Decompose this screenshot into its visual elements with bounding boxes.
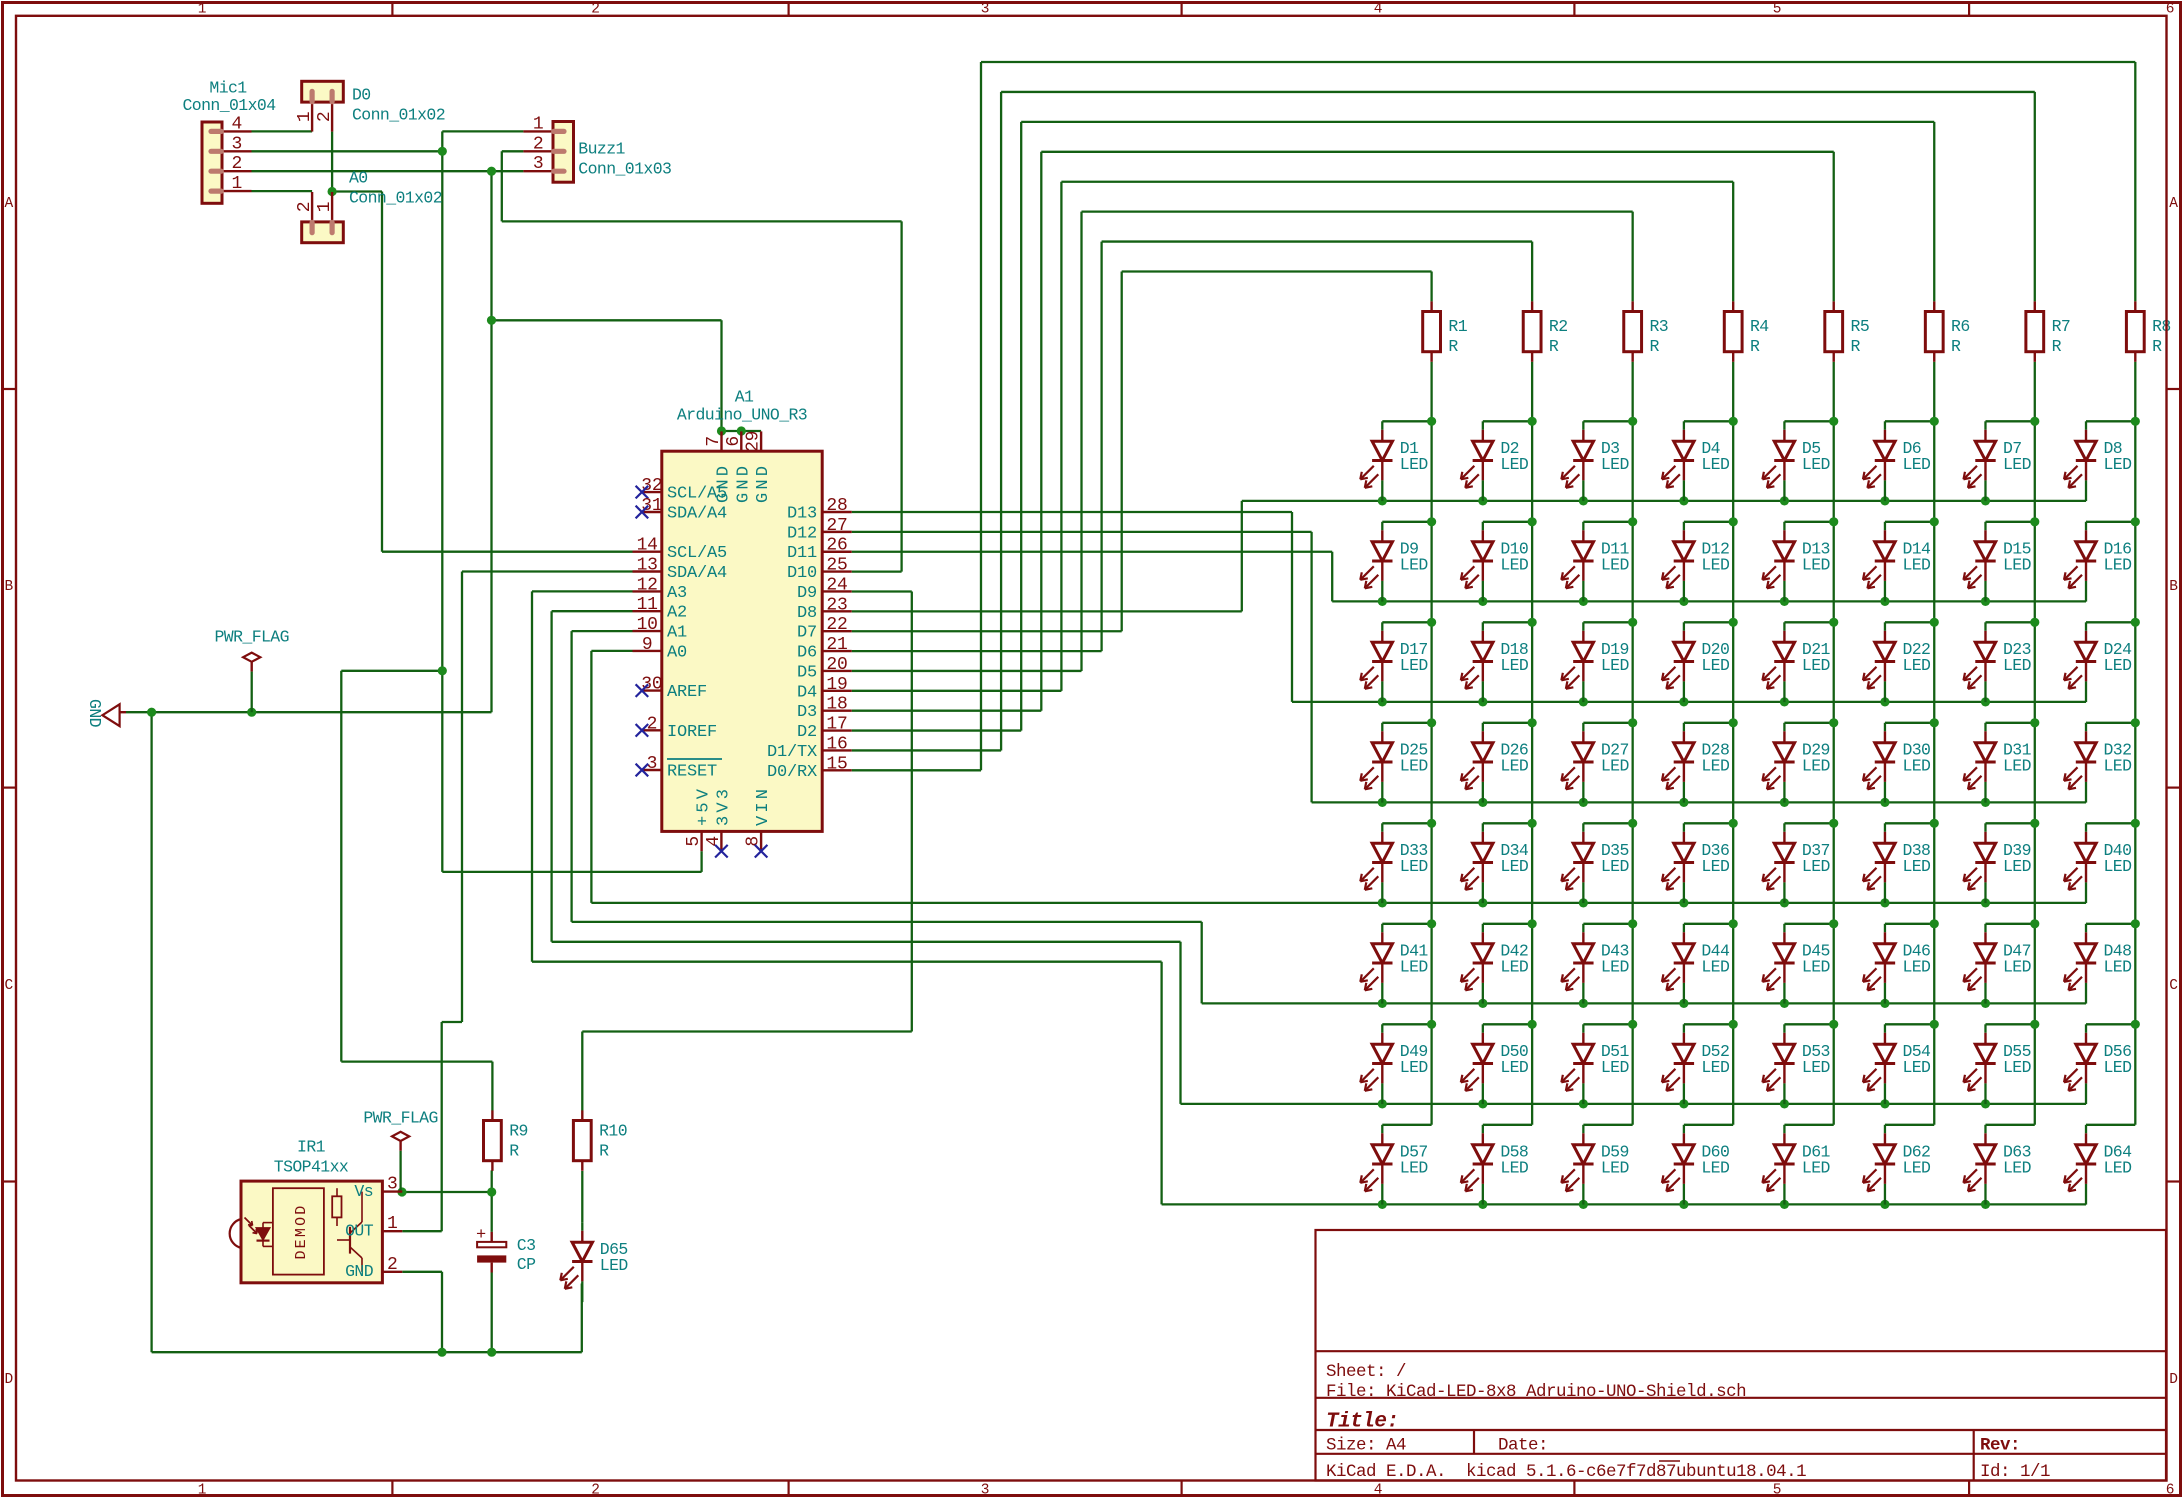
junction row 6 LED D42 cathode [1478,999,1487,1008]
LED D36 [1683,823,1685,832]
svg-text:22: 22 [826,615,847,635]
svg-text:R: R [509,1142,519,1161]
svg-text:KiCad E.D.A. kicad 5.1.6-c6e7: KiCad E.D.A. kicad 5.1.6-c6e7f7d87ubuntu… [1326,1462,1806,1482]
wire +5V net Mic1 pin 3 to Buzz1 pin 1 and Arduino +5V [252,150,443,152]
svg-text:GND: GND [345,1262,374,1281]
wire Arduino pin 27 D12 to LED row 4 [852,531,1312,533]
junction row 3 LED D19 cathode [1579,697,1588,706]
wire column 8 tap to LED row 1 [2086,420,2135,422]
wire column 4 tap to LED row 3 [1684,621,1733,623]
LED D38 [1884,823,1886,832]
svg-text:Id: 1/1: Id: 1/1 [1980,1462,2050,1482]
svg-text:A0: A0 [349,169,368,188]
LED D19 [1582,622,1584,631]
resistor R4 [1732,301,1734,311]
wire Arduino pin 12 A3 to LED row 8 [532,590,633,592]
resistor R6 [1933,301,1935,311]
svg-text:LED: LED [1601,555,1630,574]
junction column 2 row 7 [1528,1020,1537,1029]
junction column 7 row 4 [2030,718,2039,727]
wire column 5 tap to LED row 3 [1784,621,1833,623]
svg-text:LED: LED [1902,857,1931,876]
junction Arduino GND pin7 [717,426,726,435]
svg-text:D11: D11 [787,544,817,563]
svg-text:LED: LED [1400,857,1429,876]
junction column 1 row 3 [1427,618,1436,627]
LED D64 [2085,1125,2087,1134]
svg-text:14: 14 [637,536,658,556]
svg-text:LED: LED [1902,1058,1931,1077]
wire resistor R6 column vertical [1933,362,1935,1125]
svg-text:LED: LED [1400,957,1429,976]
wire column 4 tap to LED row 5 [1684,822,1733,824]
wire column 1 tap to LED row 7 [1382,1023,1431,1025]
svg-text:R: R [599,1142,609,1161]
LED D55 [1984,1024,1986,1033]
svg-text:C: C [5,978,14,994]
wire Arduino pin 28 D13 to LED row 3 [852,511,1292,513]
junction GND to Arduino GND pins [487,316,496,325]
junction Arduino GND pin6 [737,426,746,435]
IR1 internal DEMOD block [273,1188,324,1274]
svg-text:23: 23 [826,595,847,615]
LED D35 [1582,823,1584,832]
svg-text:1: 1 [315,202,335,213]
LED D23 [1984,622,1986,631]
junction row 2 LED D9 cathode [1378,597,1387,606]
wire column 4 tap to LED row 6 [1684,923,1733,925]
svg-text:4: 4 [1374,1483,1383,1498]
title block frame [1316,1230,2167,1481]
svg-text:LED: LED [1400,1058,1429,1077]
wire Arduino pin 9 A0 to LED row 5 [591,650,632,652]
junction column 7 row 1 [2030,417,2039,426]
svg-text:Conn_01x02: Conn_01x02 [352,106,445,125]
wire Arduino pin 16 D1 to resistor R7 column [852,749,1001,751]
junction row 2 LED D10 cathode [1478,597,1487,606]
junction row 8 LED D58 cathode [1478,1200,1487,1209]
svg-text:LED: LED [1802,857,1831,876]
svg-text:D0: D0 [352,86,371,105]
junction row 4 LED D27 cathode [1579,798,1588,807]
svg-text:R: R [1549,337,1559,356]
wire column 8 tap to LED row 3 [2086,621,2135,623]
LED D17 [1381,622,1383,631]
svg-text:4: 4 [1374,2,1383,18]
svg-text:A2: A2 [667,604,687,623]
resistor R9 [491,1110,493,1120]
LED D50 [1482,1024,1484,1033]
junction column 7 row 3 [2030,618,2039,627]
wire R10 bottom to D65 anode [581,1171,583,1222]
junction column 8 row 4 [2131,718,2140,727]
svg-text:LED: LED [1802,1058,1831,1077]
LED D6 [1884,421,1886,430]
svg-text:D12: D12 [787,524,817,543]
wire column 2 tap to LED row 4 [1483,722,1532,724]
svg-text:A0: A0 [667,643,687,662]
junction row 7 LED D49 cathode [1378,1099,1387,1108]
svg-text:R5: R5 [1851,317,1870,336]
LED D2 [1482,421,1484,430]
junction column 1 row 4 [1427,718,1436,727]
junction row 3 LED D20 cathode [1679,697,1688,706]
LED D59 [1582,1125,1584,1134]
svg-text:SDA/A4: SDA/A4 [667,505,727,524]
junction column 6 row 3 [1930,618,1939,627]
wire column 7 tap to LED row 2 [1985,521,2034,523]
svg-text:LED: LED [1701,1158,1730,1177]
junction row 5 LED D33 cathode [1378,898,1387,907]
svg-text:Mic1: Mic1 [209,79,247,98]
LED D5 [1783,421,1785,430]
junction column 8 row 2 [2131,517,2140,526]
Arduino A1 left pins [642,491,662,493]
LED D48 [2085,924,2087,933]
Arduino A1 bottom power pins 5 4 8 [700,831,702,851]
svg-text:LED: LED [1400,756,1429,775]
wire GND branch to Arduino GND pins [492,319,722,321]
junction column 7 row 2 [2030,517,2039,526]
svg-text:B: B [5,579,14,595]
svg-text:R9: R9 [509,1122,528,1141]
svg-text:1: 1 [198,1483,207,1498]
LED D28 [1683,723,1685,732]
wire Arduino pin 11 A2 to LED row 7 [552,610,633,612]
wire Arduino pin 22 D7 to resistor R1 column [852,630,1122,632]
wire Arduino pin 23 D8 to LED row 1 [852,610,1242,612]
junction column 2 row 1 [1528,417,1537,426]
junction column 6 row 7 [1930,1020,1939,1029]
junction row 3 LED D18 cathode [1478,697,1487,706]
wire GND net Mic1 pin 2 to Buzz1 pin 3 [252,170,524,172]
IR1 internal resistor and transistor [336,1188,338,1196]
svg-text:GND: GND [85,699,104,728]
svg-text:LED: LED [1500,957,1529,976]
junction column 5 row 2 [1829,517,1838,526]
junction column 2 row 5 [1528,819,1537,828]
svg-text:Vs: Vs [354,1182,373,1201]
junction row 7 LED D50 cathode [1478,1099,1487,1108]
svg-text:Size: A4: Size: A4 [1326,1436,1406,1456]
junction row 1 LED D5 cathode [1780,496,1789,505]
junction column 1 row 2 [1427,517,1436,526]
junction column 4 row 1 [1729,417,1738,426]
svg-text:LED: LED [2003,857,2032,876]
svg-text:LED: LED [1500,1058,1529,1077]
svg-text:LED: LED [2104,957,2133,976]
svg-text:AREF: AREF [667,683,707,702]
svg-text:LED: LED [2003,555,2032,574]
junction row 6 LED D45 cathode [1780,999,1789,1008]
wire C3 bottom to GND rail [491,1273,493,1353]
LED D27 [1582,723,1584,732]
svg-text:A3: A3 [667,584,687,603]
svg-text:File: KiCad-LED-8x8_Adruino-UN: File: KiCad-LED-8x8_Adruino-UNO-Shield.s… [1326,1382,1746,1402]
wire column 3 tap to LED row 7 [1583,1023,1632,1025]
LED D34 [1482,823,1484,832]
LED D65 [581,1222,583,1231]
svg-text:LED: LED [1902,756,1931,775]
svg-text:Buzz1: Buzz1 [578,140,625,159]
junction row 7 LED D53 cathode [1780,1099,1789,1108]
wire resistor R7 column vertical [2034,362,2036,1125]
LED D21 [1783,622,1785,631]
junction +5V branch [438,666,447,675]
svg-text:5: 5 [684,836,704,847]
junction row 3 LED D21 cathode [1780,697,1789,706]
wire column 2 tap to LED row 6 [1483,923,1532,925]
svg-text:VIN: VIN [754,786,773,826]
LED D44 [1683,924,1685,933]
wire column 3 tap to LED row 1 [1583,420,1632,422]
junction +5V Mic pin3 [438,147,447,156]
wire resistor R1 column vertical [1430,362,1432,1125]
junction column 7 row 7 [2030,1020,2039,1029]
svg-text:GND: GND [734,463,753,503]
svg-text:RESET: RESET [667,763,717,782]
svg-text:29: 29 [744,431,764,452]
wire column 6 tap to LED row 2 [1885,521,1934,523]
LED D62 [1884,1125,1886,1134]
junction column 8 row 1 [2131,417,2140,426]
LED D31 [1984,723,1986,732]
svg-text:LED: LED [1400,455,1429,474]
LED D15 [1984,522,1986,531]
svg-text:21: 21 [826,635,847,655]
wire column 2 tap to LED row 7 [1483,1023,1532,1025]
svg-text:Arduino_UNO_R3: Arduino_UNO_R3 [677,406,807,425]
svg-text:4: 4 [231,114,242,134]
junction row 8 LED D62 cathode [1880,1200,1889,1209]
wire column 6 tap to LED row 7 [1885,1023,1934,1025]
wire column 5 tap to LED row 1 [1784,420,1833,422]
junction column 6 row 1 [1930,417,1939,426]
junction column 1 row 7 [1427,1020,1436,1029]
svg-text:2: 2 [591,1483,600,1498]
svg-text:LED: LED [1802,756,1831,775]
wire column 6 tap to LED row 5 [1885,822,1934,824]
LED D32 [2085,723,2087,732]
junction column 8 row 5 [2131,819,2140,828]
svg-text:D: D [2169,1372,2178,1388]
svg-text:LED: LED [1902,957,1931,976]
svg-text:Rev:: Rev: [1980,1436,2020,1456]
LED D45 [1783,924,1785,933]
svg-text:Title:: Title: [1326,1411,1399,1434]
svg-text:2: 2 [315,112,335,123]
wire column 4 tap to LED row 2 [1684,521,1733,523]
junction row 4 LED D31 cathode [1981,798,1990,807]
svg-text:LED: LED [1601,957,1630,976]
wire column 1 tap to LED row 1 [1382,420,1431,422]
wire column 4 tap to LED row 7 [1684,1023,1733,1025]
resistor R7 [2034,301,2036,311]
junction row 4 LED D30 cathode [1880,798,1889,807]
junction row 6 LED D46 cathode [1880,999,1889,1008]
wire Arduino pin 19 D4 to resistor R4 column [852,690,1062,692]
svg-text:4: 4 [704,836,724,847]
junction row 3 LED D23 cathode [1981,697,1990,706]
LED D25 [1381,723,1383,732]
wire column 6 tap to LED row 6 [1885,923,1934,925]
wire column 7 tap to LED row 1 [1985,420,2034,422]
junction column 8 row 6 [2131,919,2140,928]
LED D18 [1482,622,1484,631]
wire column 6 tap to LED row 4 [1885,722,1934,724]
LED D3 [1582,421,1584,430]
LED D10 [1482,522,1484,531]
svg-text:SCL/A5: SCL/A5 [667,544,727,563]
IR receiver IR1 TSOP41xx [241,1181,382,1283]
svg-text:LED: LED [1701,555,1730,574]
svg-text:D3: D3 [797,703,817,722]
wire Arduino pin 18 D3 to resistor R5 column [852,710,1042,712]
wire resistor R2 column vertical [1531,362,1533,1125]
svg-text:R2: R2 [1549,317,1568,336]
wire column 1 tap to LED row 4 [1382,722,1431,724]
LED D60 [1683,1125,1685,1134]
svg-text:GND: GND [715,463,734,503]
svg-text:1: 1 [295,112,315,123]
junction column 1 row 6 [1427,919,1436,928]
svg-text:CP: CP [517,1255,536,1274]
svg-text:Sheet: /: Sheet: / [1326,1362,1406,1382]
svg-text:3: 3 [981,1483,990,1498]
svg-text:3: 3 [387,1175,398,1195]
LED D63 [1984,1125,1986,1134]
PWR_FLAG on GND net [243,653,260,662]
svg-text:LED: LED [1802,656,1831,675]
wire column 2 tap to LED row 3 [1483,621,1532,623]
junction row 6 LED D43 cathode [1579,999,1588,1008]
junction Vs R9 C3 [487,1187,496,1196]
junction row 1 LED D2 cathode [1478,496,1487,505]
svg-text:LED: LED [2104,1158,2133,1177]
svg-text:1: 1 [533,114,544,134]
wire Arduino pin 13 SDA/A4 to IR1 OUT [462,570,633,572]
svg-text:D1/TX: D1/TX [767,743,817,762]
svg-text:Conn_01x03: Conn_01x03 [578,160,671,179]
wire column 4 tap to LED row 1 [1684,420,1733,422]
svg-text:A: A [2169,196,2178,212]
LED D26 [1482,723,1484,732]
junction row 7 LED D55 cathode [1981,1099,1990,1108]
svg-text:LED: LED [2003,957,2032,976]
junction IR1 GND rail [437,1348,446,1357]
junction column 5 row 5 [1829,819,1838,828]
junction row 1 LED D3 cathode [1579,496,1588,505]
svg-text:6: 6 [724,436,744,447]
wire column 7 tap to LED row 6 [1985,923,2034,925]
svg-text:D13: D13 [787,505,817,524]
svg-text:R7: R7 [2052,317,2071,336]
svg-text:30: 30 [641,675,662,695]
junction column 7 row 5 [2030,819,2039,828]
LED D54 [1884,1024,1886,1033]
LED D16 [2085,522,2087,531]
junction row 6 LED D44 cathode [1679,999,1688,1008]
junction column 5 row 7 [1829,1020,1838,1029]
resistor R1 [1430,301,1432,311]
title block column separators [1473,1430,1475,1454]
junction row 4 LED D28 cathode [1679,798,1688,807]
svg-text:9: 9 [642,635,653,655]
svg-text:26: 26 [826,536,847,556]
junction row 1 LED D1 cathode [1378,496,1387,505]
svg-text:LED: LED [1802,455,1831,474]
IR1 pins Vs OUT GND [382,1190,402,1192]
wire column 1 tap to LED row 2 [1382,521,1431,523]
wire resistor R5 column vertical [1833,362,1835,1125]
svg-text:LED: LED [2104,1058,2133,1077]
wire column 3 tap to LED row 6 [1583,923,1632,925]
svg-text:IOREF: IOREF [667,723,717,742]
svg-text:LED: LED [1500,857,1529,876]
svg-text:LED: LED [1701,857,1730,876]
svg-text:LED: LED [1701,1058,1730,1077]
wire column 3 tap to LED row 3 [1583,621,1632,623]
svg-text:LED: LED [1902,1158,1931,1177]
svg-text:2: 2 [591,2,600,18]
LED D12 [1683,522,1685,531]
wire GND net vertical to GND symbol line [490,171,492,712]
svg-text:LED: LED [1400,555,1429,574]
junction column 6 row 2 [1930,517,1939,526]
svg-text:1: 1 [198,2,207,18]
svg-text:3: 3 [981,2,990,18]
LED D40 [2085,823,2087,832]
LED D56 [2085,1024,2087,1033]
svg-text:LED: LED [2003,1058,2032,1077]
wire IR1 GND pin to GND rail [402,1271,442,1273]
svg-text:5: 5 [1773,2,1782,18]
junction GND Mic pin2 [487,167,496,176]
svg-text:LED: LED [1701,455,1730,474]
junction column 6 row 6 [1930,919,1939,928]
LED D43 [1582,924,1584,933]
LED D57 [1381,1125,1383,1134]
svg-text:LED: LED [1902,656,1931,675]
svg-text:LED: LED [1400,1158,1429,1177]
svg-text:LED: LED [1902,455,1931,474]
junction column 4 row 5 [1729,819,1738,828]
wire Arduino pin 21 D6 to resistor R2 column [852,650,1102,652]
svg-text:LED: LED [2003,455,2032,474]
svg-text:3: 3 [533,154,544,174]
GND power symbol [102,704,119,726]
title block row separators [1316,1350,2167,1352]
junction column 4 row 6 [1729,919,1738,928]
LED D41 [1381,924,1383,933]
wire column 7 tap to LED row 7 [1985,1023,2034,1025]
wire IR1 Vs to R9 bottom and C3 [402,1191,491,1193]
Arduino UNO A1 body [662,451,822,831]
svg-text:+5V: +5V [695,786,714,826]
svg-text:LED: LED [1902,555,1931,574]
svg-text:PWR_FLAG: PWR_FLAG [363,1109,437,1128]
capacitor C3 CP polarized [477,1242,506,1247]
wire Arduino pin 26 D11 to LED row 2 [852,551,1332,553]
wire Mic1 pin 1 to connector A0 pin 2 [252,190,313,192]
svg-text:LED: LED [2104,857,2133,876]
svg-text:LED: LED [2003,1158,2032,1177]
junction column 3 row 1 [1628,417,1637,426]
svg-text:D8: D8 [797,604,817,623]
svg-text:D2: D2 [797,723,817,742]
svg-text:LED: LED [1500,756,1529,775]
junction row 5 LED D35 cathode [1579,898,1588,907]
